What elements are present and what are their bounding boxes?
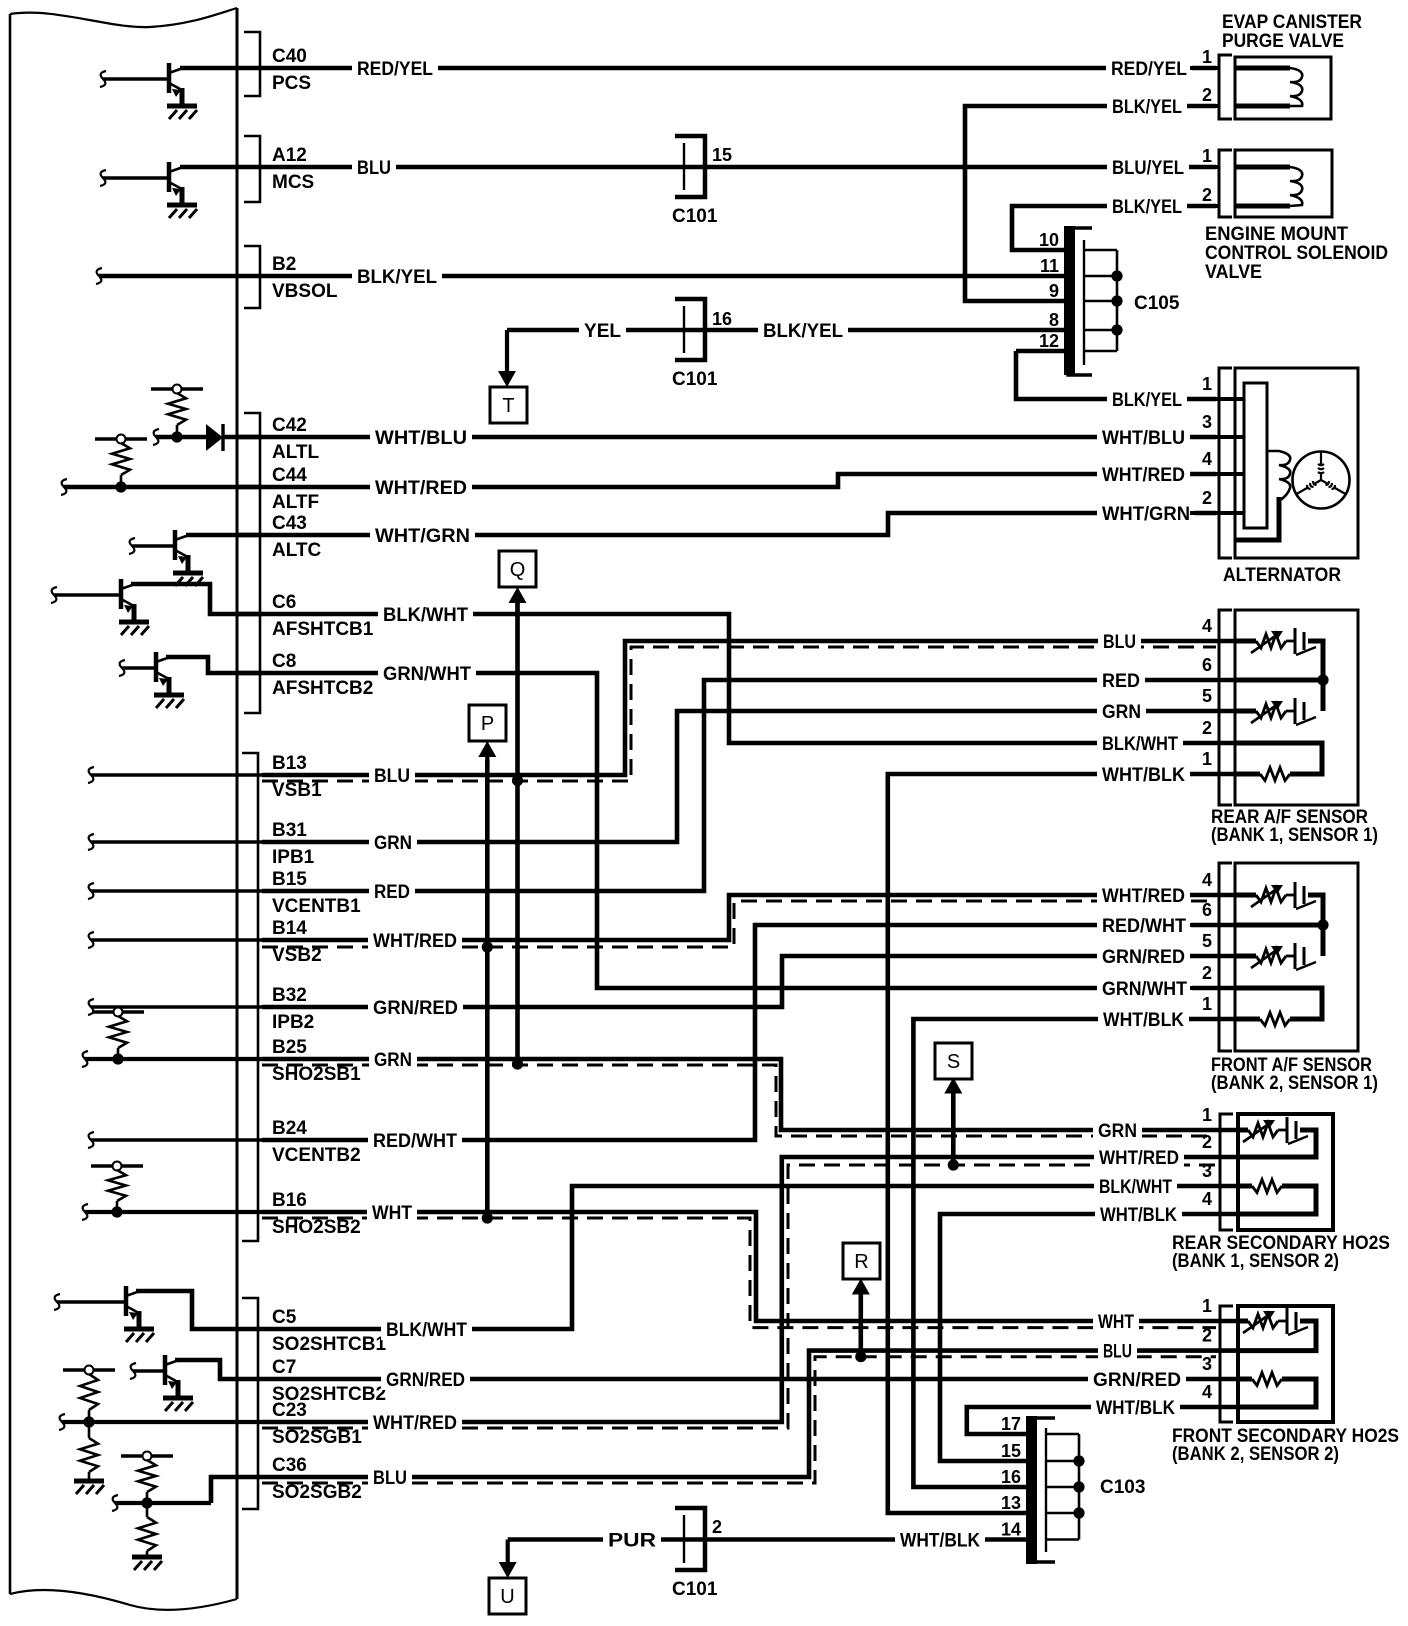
ECM connector bracket C42-C8 — [244, 413, 260, 713]
connector C101 pin 16 — [675, 299, 705, 360]
svg-text:CONTROL SOLENOID: CONTROL SOLENOID — [1205, 243, 1388, 264]
svg-text:9: 9 — [1049, 281, 1059, 301]
svg-text:VCENTB2: VCENTB2 — [272, 1145, 361, 1166]
svg-text:WHT/GRN: WHT/GRN — [375, 526, 470, 547]
svg-text:C44: C44 — [272, 465, 307, 486]
wire label GRN — [1097, 700, 1146, 722]
svg-text:GRN: GRN — [1098, 1121, 1137, 1142]
wire label BLK/WHT — [378, 603, 473, 625]
svg-text:BLK/WHT: BLK/WHT — [1102, 734, 1178, 755]
wire PCS RED/YEL row — [237, 66, 1216, 71]
svg-text:2: 2 — [1202, 1132, 1212, 1152]
svg-text:1: 1 — [1202, 374, 1212, 394]
rear A/F sensor box — [1235, 610, 1358, 805]
wire IPB2 GRN/RED to front A/F pin5 — [262, 956, 1235, 1007]
front secondary HO2S box — [1238, 1306, 1333, 1422]
resistor front A/F heater — [1235, 988, 1322, 1019]
rear secondary HO2S box — [1238, 1114, 1333, 1230]
wire label WHT/RED — [1097, 463, 1190, 485]
wire label BLK/YEL — [758, 319, 848, 341]
wire label WHT/BLK — [1091, 1396, 1180, 1418]
svg-text:BLU: BLU — [373, 1468, 407, 1489]
svg-text:GRN/RED: GRN/RED — [1102, 947, 1185, 968]
svg-text:16: 16 — [712, 309, 732, 329]
svg-text:10: 10 — [1039, 230, 1059, 250]
svg-text:PCS: PCS — [272, 73, 311, 94]
node C103 bus junction — [1073, 1455, 1084, 1466]
svg-text:15: 15 — [1001, 1441, 1021, 1461]
connector bracket rear A/F sensor — [1219, 610, 1232, 805]
svg-text:WHT/BLK: WHT/BLK — [1102, 765, 1185, 786]
svg-text:R: R — [854, 1251, 868, 1273]
ECM box outline (torn-edge) — [10, 8, 237, 27]
alternator stator symbol — [1293, 452, 1350, 509]
connector C103 pin 17 stub — [1046, 1433, 1079, 1436]
svg-text:EVAP CANISTER: EVAP CANISTER — [1222, 12, 1362, 33]
heater element rear A/F row4 — [1235, 639, 1256, 644]
svg-text:RED/WHT: RED/WHT — [373, 1131, 457, 1152]
wire label RED/WHT — [1097, 914, 1191, 936]
svg-text:C42: C42 — [272, 415, 307, 436]
svg-text:WHT/BLK: WHT/BLK — [1100, 1205, 1177, 1226]
connector bracket engine mount valve — [1219, 150, 1232, 217]
svg-text:3: 3 — [1202, 1354, 1212, 1374]
svg-text:4: 4 — [1202, 449, 1212, 469]
svg-text:GRN: GRN — [374, 1050, 412, 1071]
wire rear A/F pin6 internal — [1235, 678, 1323, 683]
svg-text:8: 8 — [1049, 310, 1059, 330]
connector C105 pin 9 stub — [1084, 300, 1117, 303]
svg-text:SO2SGB2: SO2SGB2 — [272, 1482, 362, 1503]
wire ECM internal stub — [91, 938, 262, 941]
node S shield riser — [951, 1088, 956, 1165]
svg-text:1: 1 — [1202, 1296, 1212, 1316]
svg-text:SHO2SB1: SHO2SB1 — [272, 1064, 361, 1085]
wire SO2SGB1 internal — [62, 1420, 262, 1424]
wire SO2SGB2 BLU pair to front HO2S pin2 — [262, 1351, 1238, 1477]
node R shield riser — [858, 1289, 863, 1357]
svg-text:3: 3 — [1202, 412, 1212, 432]
node C103 bus junction — [1073, 1507, 1084, 1518]
ECM connector bracket C5-C36 — [242, 1298, 258, 1509]
svg-text:WHT/RED: WHT/RED — [375, 478, 467, 499]
connector C105 pin 8 stub — [1084, 329, 1117, 332]
wire label WHT/BLU — [370, 426, 472, 448]
svg-text:ENGINE MOUNT: ENGINE MOUNT — [1205, 224, 1348, 245]
node C103 bus junction — [1073, 1481, 1084, 1492]
wire SO2SHTCB2 GRN/RED to front HO2S pin3 — [262, 1377, 1238, 1382]
resistor rear HO2S sensing — [1238, 1184, 1252, 1189]
svg-text:WHT/RED: WHT/RED — [1102, 886, 1185, 907]
svg-text:IPB2: IPB2 — [272, 1012, 314, 1033]
svg-text:P: P — [481, 713, 494, 735]
transistor SO2SHTCB1 driver — [57, 1286, 140, 1327]
node box Q — [499, 551, 536, 587]
wire front A/F pin6 internal — [1235, 923, 1323, 928]
node C105 bus junction — [1111, 324, 1122, 335]
wire VSB2 WHT/RED pair to front A/F pin4 — [262, 895, 1235, 940]
connector bracket front secondary HO2S — [1220, 1306, 1233, 1422]
wire VSB1 BLU pair to rear A/F pin4 — [262, 641, 1235, 775]
wire label GRN/RED — [381, 1368, 470, 1390]
svg-text:PURGE VALVE: PURGE VALVE — [1222, 31, 1344, 52]
svg-text:PUR: PUR — [608, 1531, 656, 1552]
wire label GRN/WHT — [1097, 977, 1192, 999]
ECM connector bracket A12 — [244, 136, 260, 202]
wire label BLU — [368, 1466, 412, 1488]
node SHO2SB1 junction — [112, 1053, 123, 1064]
connector C101 pin 15 — [675, 136, 705, 197]
wire alternator pin1 BLK/YEL riser from C105 pin 12 — [1016, 349, 1065, 354]
wire PUR drop to U — [506, 1540, 510, 1565]
wire label WHT/BLK — [895, 1529, 985, 1551]
svg-text:RED/YEL: RED/YEL — [357, 59, 433, 80]
node Q junction on SHO2SB1 shield — [512, 1058, 523, 1069]
wire ECM internal stub — [91, 1138, 262, 1141]
wire PUR / WHT-BLK row to C103 pin14 — [508, 1537, 1027, 1542]
wire label BLK/WHT — [381, 1318, 472, 1340]
node S junction on rear HO2S shield — [948, 1159, 959, 1170]
wire ALTC collector to edge — [186, 533, 262, 538]
svg-text:WHT/BLU: WHT/BLU — [375, 428, 467, 449]
pull-down resistor for SO2SGB1 — [88, 1422, 91, 1438]
wire IPB1 GRN to rear A/F pin5 — [262, 711, 1235, 842]
wire EVAP pin2 BLK/YEL riser — [965, 106, 1216, 301]
svg-text:WHT/RED: WHT/RED — [1102, 465, 1185, 486]
svg-text:WHT/RED: WHT/RED — [373, 931, 457, 952]
alternator box — [1235, 368, 1358, 558]
wire front A/F pin1 WHT/BLK to C103 pin16 — [913, 1019, 1235, 1487]
wire label WHT/RED — [368, 1411, 462, 1433]
wire label BLK/YEL — [1107, 95, 1187, 117]
svg-text:IPB1: IPB1 — [272, 847, 315, 868]
svg-text:MCS: MCS — [272, 172, 314, 193]
svg-text:6: 6 — [1202, 900, 1212, 920]
node R junction on front HO2S shield — [855, 1351, 866, 1362]
wire AFSHTCB2 driver base lead break — [119, 660, 125, 676]
svg-text:VSB1: VSB1 — [272, 780, 322, 801]
wire label WHT/RED — [1094, 1146, 1184, 1168]
ground SO2SGB2 — [132, 1555, 162, 1560]
wire MCS BLU row — [237, 165, 1216, 170]
svg-text:BLK/WHT: BLK/WHT — [383, 605, 468, 626]
svg-text:15: 15 — [712, 145, 732, 165]
svg-text:3: 3 — [1202, 1161, 1212, 1181]
pull-up resistor for SO2SGB1 — [63, 1368, 115, 1371]
wire PCS driver base lead break — [100, 71, 106, 87]
svg-text:14: 14 — [1001, 1520, 1021, 1540]
svg-text:B24: B24 — [272, 1118, 307, 1139]
wire label BLK/WHT — [1094, 1175, 1177, 1197]
EVAP canister purge valve box — [1235, 57, 1331, 119]
svg-text:BLK/YEL: BLK/YEL — [763, 321, 843, 342]
svg-text:4: 4 — [1202, 1189, 1212, 1209]
svg-text:6: 6 — [1202, 655, 1212, 675]
wire label WHT/BLK — [1098, 1008, 1189, 1030]
svg-text:RED/YEL: RED/YEL — [1111, 59, 1187, 80]
svg-text:16: 16 — [1001, 1467, 1021, 1487]
svg-text:BLK/YEL: BLK/YEL — [1112, 197, 1182, 218]
wire SHO2SB1 GRN pair to rear HO2S pin1 — [262, 1059, 1238, 1130]
svg-text:VALVE: VALVE — [1205, 262, 1262, 283]
connector C105 pin 10 stub — [1084, 249, 1117, 252]
wire AFSHTCB2 driver collector elbow — [166, 657, 262, 673]
svg-text:GRN/RED: GRN/RED — [373, 998, 458, 1019]
svg-text:BLK/WHT: BLK/WHT — [1099, 1177, 1172, 1198]
svg-text:B2: B2 — [272, 254, 296, 275]
svg-text:GRN/WHT: GRN/WHT — [1102, 979, 1187, 1000]
wire SO2SHTCB1 BLK/WHT to rear HO2S pin3 — [262, 1186, 1238, 1329]
wire SO2SHTCB1 driver base lead break — [54, 1294, 60, 1310]
svg-text:(BANK 2, SENSOR 2): (BANK 2, SENSOR 2) — [1172, 1444, 1339, 1465]
svg-text:17: 17 — [1001, 1414, 1021, 1434]
ECM connector bracket C40 — [244, 32, 260, 96]
node front A/F cell junction — [1317, 919, 1328, 930]
connector C103 pin 16 stub — [1046, 1486, 1079, 1489]
svg-text:C105: C105 — [1134, 293, 1180, 314]
svg-text:VCENTB1: VCENTB1 — [272, 896, 361, 917]
svg-text:1: 1 — [1202, 1105, 1212, 1125]
node C105 bus junction — [1111, 270, 1122, 281]
svg-text:A12: A12 — [272, 145, 307, 166]
wire C105 output bus — [1116, 250, 1119, 351]
node SO2SGB1 junction — [83, 1416, 94, 1427]
svg-text:C36: C36 — [272, 1455, 307, 1476]
node box P — [469, 705, 506, 741]
connector bracket alternator — [1219, 368, 1232, 558]
node box R — [843, 1243, 880, 1279]
svg-text:B25: B25 — [272, 1037, 307, 1058]
svg-text:WHT/BLK: WHT/BLK — [1103, 1010, 1184, 1031]
svg-text:BLK/YEL: BLK/YEL — [357, 267, 437, 288]
wire label WHT/GRN — [370, 524, 475, 546]
svg-text:YEL: YEL — [584, 321, 621, 342]
svg-text:GRN/RED: GRN/RED — [1093, 1370, 1181, 1391]
front A/F sensor box — [1235, 863, 1358, 1051]
transistor SO2SHTCB2 driver — [133, 1355, 179, 1396]
heater element front HO2S — [1238, 1319, 1248, 1324]
connector bracket front A/F sensor — [1219, 863, 1232, 1051]
wire VBSOL internal — [99, 274, 262, 279]
node SO2SGB2 junction — [141, 1497, 152, 1508]
node rear A/F cell junction — [1317, 674, 1328, 685]
wire label BLU — [352, 156, 396, 178]
wire SO2SHTCB1 driver collector elbow — [136, 1291, 262, 1329]
coil EVAP solenoid — [1235, 66, 1290, 71]
svg-text:WHT/BLU: WHT/BLU — [1102, 428, 1185, 449]
svg-text:RED/WHT: RED/WHT — [1102, 916, 1186, 937]
wire label BLK/YEL — [1107, 388, 1187, 410]
wire label WHT/RED — [370, 476, 472, 498]
wire ALTF internal — [64, 485, 262, 490]
ground SO2SGB1 — [74, 1479, 104, 1484]
svg-text:GRN: GRN — [374, 833, 412, 854]
wire label BLU/YEL — [1107, 156, 1189, 178]
connector C105 pin 12 stub — [1084, 350, 1117, 353]
svg-text:(BANK 1, SENSOR 2): (BANK 1, SENSOR 2) — [1172, 1251, 1339, 1272]
pull-up resistor for SO2SGB2 — [121, 1454, 173, 1457]
svg-text:BLU: BLU — [1103, 1342, 1132, 1363]
wire C103 output bus — [1078, 1434, 1081, 1540]
svg-text:BLK/WHT: BLK/WHT — [386, 1320, 467, 1341]
wire label PUR — [603, 1529, 661, 1551]
wire label WHT — [367, 1201, 417, 1223]
svg-text:2: 2 — [1202, 718, 1212, 738]
svg-text:C5: C5 — [272, 1307, 297, 1328]
wire label GRN/RED — [1097, 945, 1190, 967]
pull-up resistor for ALTL — [151, 387, 203, 390]
wire MCS collector to edge — [180, 165, 237, 170]
svg-text:WHT: WHT — [1098, 1312, 1134, 1333]
wire label RED — [1097, 669, 1145, 691]
svg-text:C8: C8 — [272, 651, 296, 672]
svg-text:C23: C23 — [272, 1400, 307, 1421]
node ALTF junction — [115, 481, 126, 492]
alternator internal connector bar — [1244, 383, 1267, 528]
wire SO2SGB2 internal node — [115, 1501, 211, 1505]
wire label RED/WHT — [368, 1129, 462, 1151]
connector bracket EVAP — [1219, 55, 1232, 119]
ECM connector bracket B13-B16 — [242, 753, 258, 1241]
wire AFSHTCB1 BLK/WHT to rear A/F pin2 — [237, 614, 1235, 743]
svg-text:B32: B32 — [272, 985, 307, 1006]
svg-text:C101: C101 — [672, 1579, 718, 1600]
svg-text:GRN/RED: GRN/RED — [386, 1370, 465, 1391]
resistor front HO2S sensing — [1238, 1377, 1252, 1382]
svg-text:4: 4 — [1202, 1382, 1212, 1402]
svg-text:AFSHTCB2: AFSHTCB2 — [272, 678, 373, 699]
svg-text:1: 1 — [1202, 146, 1212, 166]
transistor ALTC driver — [132, 530, 189, 571]
svg-text:ALTC: ALTC — [272, 540, 322, 561]
wire ALTC WHT/GRN row with jog — [237, 513, 1216, 535]
pull-up resistor for ALTF — [95, 437, 147, 440]
svg-text:WHT/RED: WHT/RED — [373, 1413, 457, 1434]
svg-text:C101: C101 — [672, 369, 718, 390]
wire label WHT/BLK — [1095, 1203, 1182, 1225]
wire label WHT/BLU — [1097, 426, 1190, 448]
wire ALTL WHT/BLU row — [237, 435, 1216, 440]
node P junction on SHO2SB2 shield — [482, 1212, 493, 1223]
wire YEL drop to T — [505, 330, 509, 373]
wire label BLK/WHT — [1097, 732, 1183, 754]
connector C101 pin 2 — [675, 1508, 705, 1570]
wire label BLK/YEL — [1107, 195, 1187, 217]
connector C103 — [1030, 1418, 1055, 1562]
svg-text:ALTF: ALTF — [272, 492, 319, 513]
svg-text:B15: B15 — [272, 869, 307, 890]
svg-text:4: 4 — [1202, 616, 1212, 636]
node Q junction on VSB1 shield — [512, 775, 523, 786]
svg-text:2: 2 — [1202, 1326, 1212, 1346]
svg-text:BLU: BLU — [357, 158, 391, 179]
svg-text:ALTL: ALTL — [272, 442, 320, 463]
svg-text:C43: C43 — [272, 513, 307, 534]
node P junction on VSB2 shield — [482, 941, 493, 952]
wire rear A/F pin1 WHT/BLK to C103 pin13 — [888, 774, 1235, 1513]
svg-text:C7: C7 — [272, 1357, 296, 1378]
wire engine-mount pin2 BLK/YEL riser — [1012, 206, 1216, 250]
svg-text:AFSHTCB1: AFSHTCB1 — [272, 619, 374, 640]
wire label GRN — [369, 1048, 417, 1070]
node C105 bus junction — [1111, 295, 1122, 306]
wire MCS driver base lead break — [100, 170, 106, 186]
node Q shield riser — [515, 598, 520, 1064]
wire SO2SGB1 WHT/RED pair to rear HO2S pin2 — [262, 1157, 1238, 1422]
node box S — [935, 1043, 972, 1079]
wire SO2SHTCB2 driver collector elbow — [175, 1360, 262, 1379]
svg-text:2: 2 — [1202, 488, 1212, 508]
svg-text:B16: B16 — [272, 1190, 307, 1211]
svg-text:GRN/WHT: GRN/WHT — [383, 664, 471, 685]
connector C103 pin 13 stub — [1046, 1512, 1079, 1515]
wire label RED/YEL — [1106, 57, 1192, 79]
wire AFSHTCB2 GRN/WHT to front A/F pin2 — [237, 673, 1235, 988]
node box T — [490, 387, 527, 423]
wire AFSHTCB1 driver collector elbow — [131, 584, 262, 614]
svg-text:2: 2 — [1202, 963, 1212, 983]
svg-text:WHT/GRN: WHT/GRN — [1102, 504, 1190, 525]
wire PCS collector to edge — [180, 66, 237, 71]
ECM connector bracket B2 — [244, 246, 260, 308]
svg-text:4: 4 — [1202, 870, 1212, 890]
svg-text:B13: B13 — [272, 753, 307, 774]
svg-text:Q: Q — [510, 559, 526, 581]
heater element rear HO2S — [1238, 1128, 1248, 1133]
svg-text:BLK/YEL: BLK/YEL — [1112, 390, 1182, 411]
wire label WHT — [1093, 1310, 1139, 1332]
wire VBSOL BLK/YEL row to C105 pin 11 — [262, 274, 1065, 279]
svg-text:U: U — [500, 1586, 514, 1608]
svg-text:B31: B31 — [272, 820, 307, 841]
wire SHO2SB2 WHT pair to front HO2S pin1 — [262, 1212, 1238, 1321]
wire front HO2S pin4 WHT/BLK to C103 pin17 — [967, 1407, 1238, 1434]
svg-text:T: T — [502, 395, 514, 417]
transistor PCS driver — [103, 63, 183, 104]
pull-up resistor for SHO2SB1 — [92, 1010, 144, 1013]
wire label GRN — [369, 831, 417, 853]
coil engine mount solenoid — [1235, 165, 1290, 170]
wire SHO2SB1 internal — [85, 1057, 262, 1061]
pull-up resistor for SHO2SB2 — [91, 1164, 143, 1167]
svg-text:C103: C103 — [1100, 1477, 1145, 1498]
engine mount control solenoid valve box — [1235, 150, 1332, 217]
wire label BLK/YEL — [352, 265, 442, 287]
wire VCENTB1 RED to rear A/F pin6 — [262, 680, 1235, 891]
svg-text:1: 1 — [1202, 994, 1212, 1014]
pull-down resistor for SO2SGB2 — [146, 1503, 149, 1517]
svg-text:C40: C40 — [272, 46, 307, 67]
wire label BLU — [1098, 1340, 1137, 1362]
transistor AFSHTCB2 driver — [122, 652, 170, 693]
wire label YEL — [579, 319, 626, 341]
wire SO2SGB2 elbow to edge — [211, 1477, 262, 1503]
svg-text:RED: RED — [1102, 671, 1140, 692]
svg-text:GRN: GRN — [1102, 702, 1141, 723]
node ALTL junction — [171, 431, 182, 442]
wire AFSHTCB1 driver base lead break — [51, 587, 57, 603]
svg-text:11: 11 — [1040, 256, 1059, 276]
connector C105 pin 11 stub — [1084, 275, 1117, 278]
wire VCENTB2 RED/WHT to front A/F pin6 — [262, 925, 1235, 1140]
heater element front A/F row5 — [1235, 954, 1256, 959]
svg-text:12: 12 — [1039, 331, 1059, 351]
wire label WHT/BLK — [1097, 763, 1190, 785]
wire label RED — [369, 880, 415, 902]
svg-text:WHT/RED: WHT/RED — [1099, 1148, 1179, 1169]
wire label WHT/GRN — [1097, 502, 1195, 524]
wire ALTL diode to edge — [222, 435, 262, 440]
